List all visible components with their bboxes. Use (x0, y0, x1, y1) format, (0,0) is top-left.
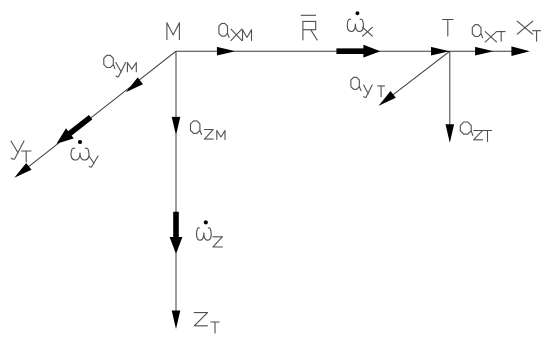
arrowhead z_T axis end (172, 311, 181, 330)
arrowhead a_xM (217, 47, 236, 56)
label a_xM: a (219, 23, 229, 37)
label a_xT: sub x (485, 32, 496, 42)
label a_yM: sub M (127, 63, 136, 72)
arrowhead a_zM (172, 117, 181, 135)
label z_T: z (194, 313, 207, 326)
arrowhead y_T axis end (14, 163, 31, 178)
label R: letter R (303, 21, 317, 40)
label R: overbar (301, 14, 316, 16)
label a_yT: a (351, 77, 361, 90)
label omega-dot-x: dot (356, 11, 360, 15)
label a_yT: sub T (378, 86, 385, 97)
label omega-dot-y: sub y (89, 156, 98, 167)
label T (point T) (443, 20, 454, 37)
label a_zT: sub z (474, 131, 483, 140)
label omega-dot-z: dot (204, 220, 208, 224)
label omega-dot-x: sub x (363, 27, 373, 36)
label M (point M) (167, 23, 180, 40)
arrowhead a_yM (126, 77, 143, 92)
label x_T: sub T (533, 31, 541, 41)
label a_zM: sub M (217, 131, 225, 140)
label a_zT: sub T (484, 131, 492, 142)
label a_zT: a (460, 122, 473, 135)
label y_T: sub T (22, 151, 32, 162)
arrowhead x_T axis end (511, 46, 530, 56)
label a_zM: sub z (205, 130, 214, 140)
label z_T: sub T (211, 322, 219, 333)
bold arrow omega-dot-x (336, 45, 380, 58)
label omega-dot-y: omega (71, 148, 89, 160)
arrowhead a_yT (379, 91, 396, 106)
label y_T: y (11, 141, 24, 159)
label omega-dot-x: omega (347, 19, 363, 31)
wire vertical axis M-zT (175, 51, 177, 311)
label a_xM: sub M (243, 30, 252, 41)
label a_xT: a (472, 25, 482, 38)
label a_xM: sub x (231, 29, 242, 40)
bold arrow omega-dot-y (57, 115, 93, 144)
arrowhead a_zT (446, 124, 455, 143)
label a_yT: sub y (364, 85, 373, 97)
label a_zM: a (191, 121, 202, 135)
label x_T: x (517, 21, 533, 34)
wire vertical segment T-azT (449, 51, 451, 141)
wire horizontal axis M-T-xT (176, 50, 513, 52)
label a_yM: sub y (116, 63, 126, 77)
arrowhead R vector tip at T (431, 47, 450, 56)
label omega-dot-y: dot (78, 140, 82, 144)
label a_xT: sub T (497, 32, 505, 41)
wire diagonal axis M-yT (16, 51, 176, 176)
bold arrow omega-dot-z (170, 212, 183, 254)
label omega-dot-z: omega (197, 228, 212, 240)
label a_yM: a (104, 55, 115, 68)
label omega-dot-z: sub z (213, 237, 223, 247)
wire diagonal segment T-ayT (380, 51, 450, 105)
arrowhead a_xT (475, 47, 494, 56)
